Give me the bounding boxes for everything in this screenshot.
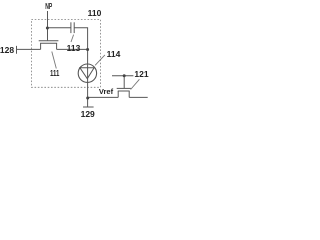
svg-text:121: 121 <box>134 69 148 79</box>
svg-text:110: 110 <box>88 8 102 18</box>
svg-text:NP: NP <box>45 2 52 11</box>
svg-text:113: 113 <box>67 43 81 53</box>
svg-text:128: 128 <box>0 45 14 55</box>
svg-text:Vref: Vref <box>99 87 114 96</box>
svg-text:114: 114 <box>107 49 121 59</box>
svg-text:129: 129 <box>81 109 95 119</box>
svg-text:111: 111 <box>50 68 60 78</box>
